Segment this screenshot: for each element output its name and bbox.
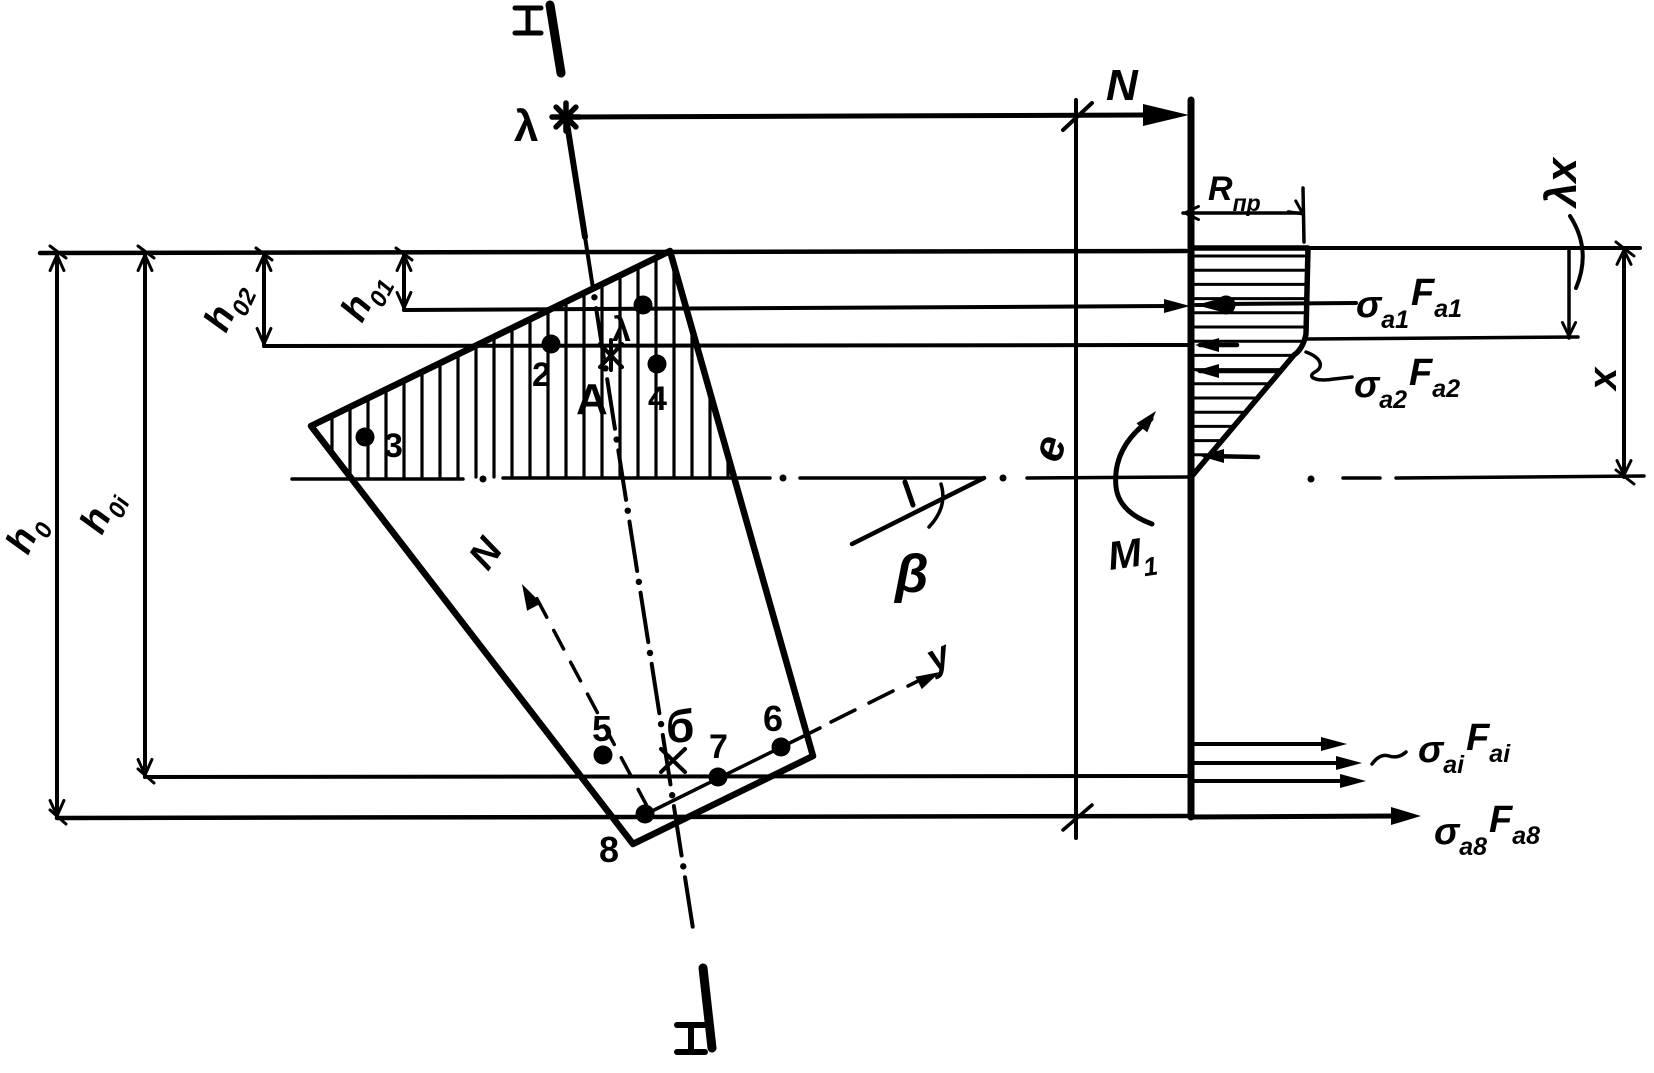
svg-text:λ: λ — [612, 311, 631, 349]
svg-text:x: x — [1581, 366, 1625, 392]
svg-text:4: 4 — [648, 380, 667, 418]
svg-text:6: 6 — [763, 698, 783, 739]
svg-text:β: β — [893, 544, 929, 604]
svg-text:N: N — [1106, 61, 1139, 110]
svg-text:λ: λ — [514, 102, 538, 151]
svg-text:5: 5 — [592, 708, 612, 749]
svg-text:A: A — [576, 375, 608, 424]
svg-text:2: 2 — [532, 356, 551, 394]
svg-text:λx: λx — [1537, 157, 1586, 209]
svg-text:8: 8 — [599, 829, 619, 870]
svg-text:б: б — [666, 700, 694, 752]
svg-text:7: 7 — [709, 728, 728, 766]
svg-text:3: 3 — [384, 427, 403, 465]
